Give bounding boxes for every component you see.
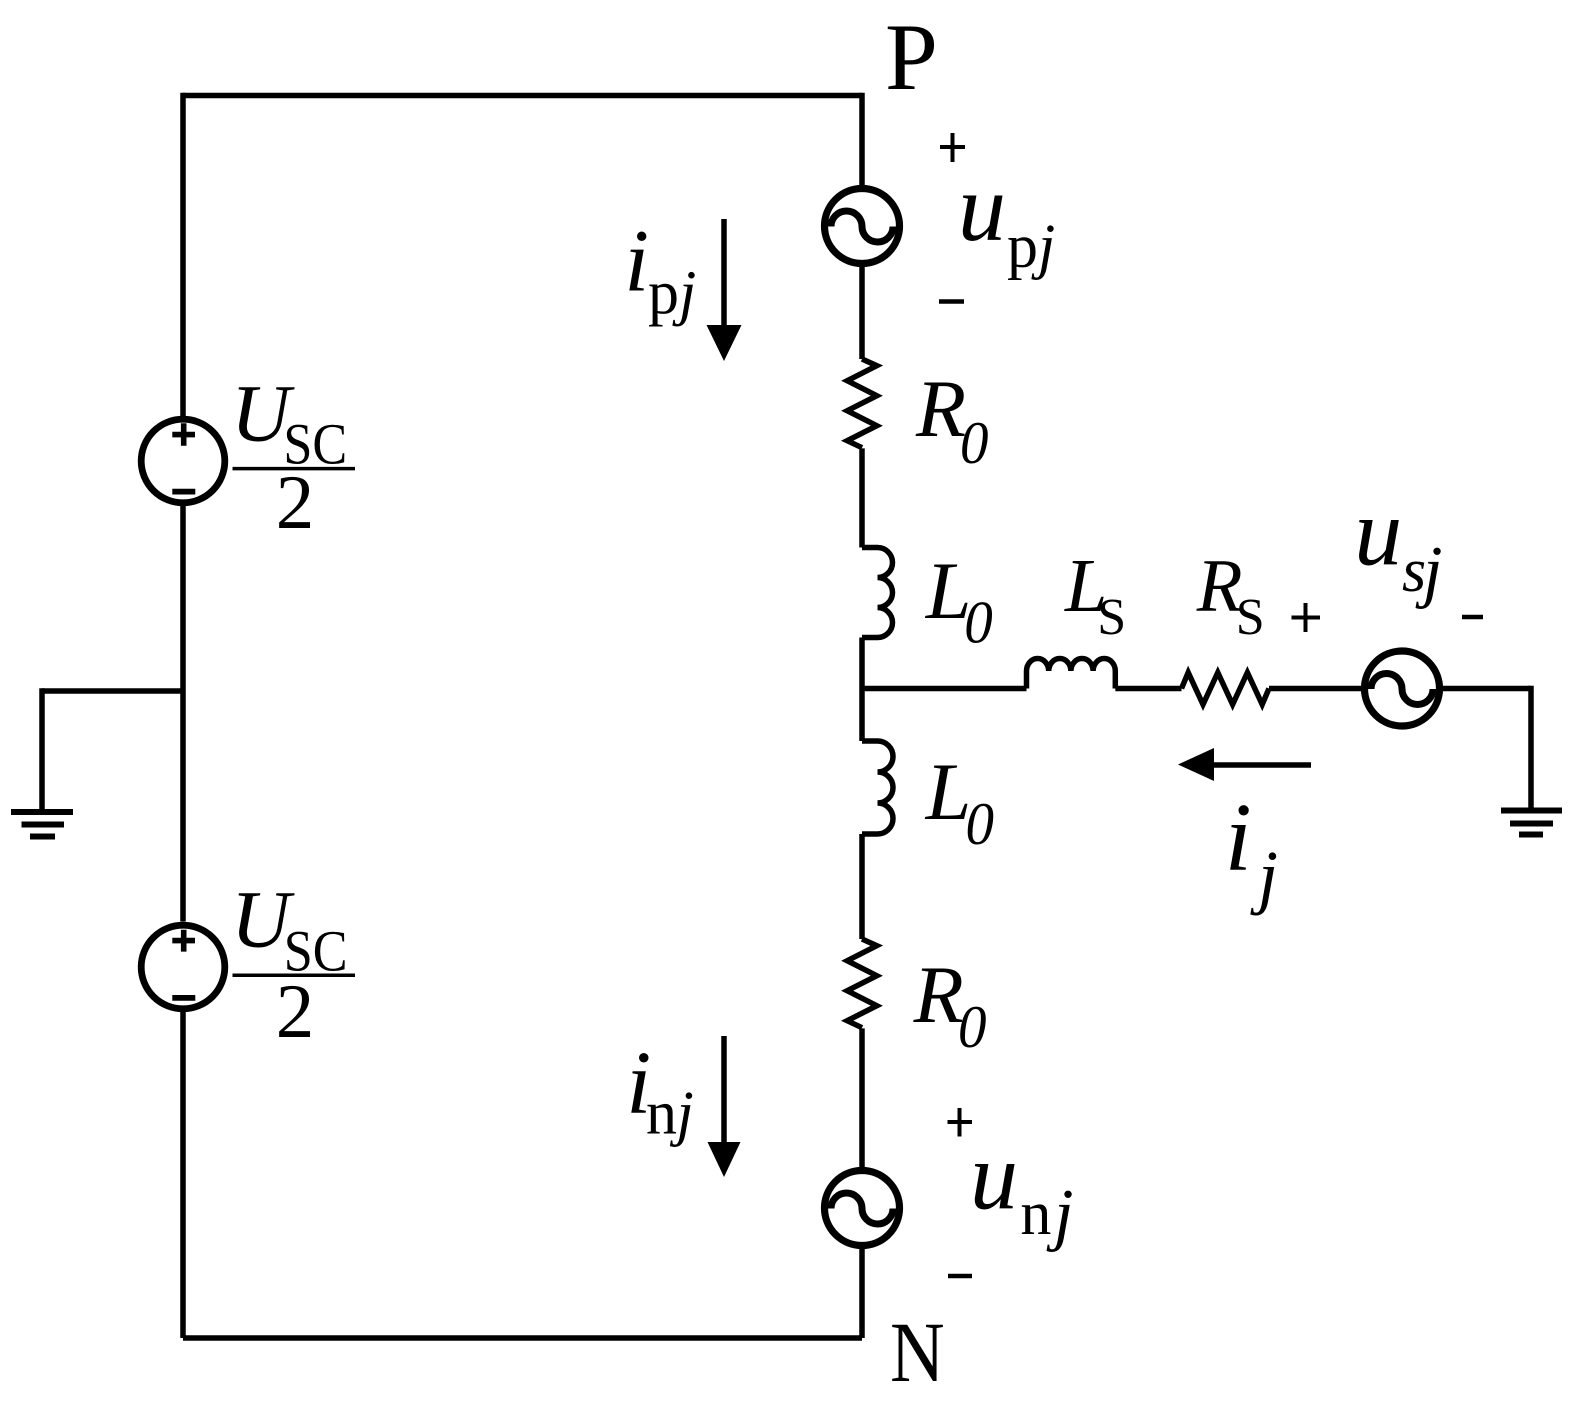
svg-text:j: j xyxy=(1250,836,1278,916)
DC source V1 circle xyxy=(141,419,225,503)
wire RS to source xyxy=(1269,686,1362,692)
svg-text:0: 0 xyxy=(960,410,988,477)
arrow i_nj head xyxy=(708,1142,741,1177)
wire top horizontal xyxy=(183,93,862,99)
DC source V2 minus xyxy=(172,995,195,1001)
plus sign u_nj xyxy=(948,1108,973,1137)
AC source u_pj circle xyxy=(825,189,900,264)
svg-text:S: S xyxy=(1236,589,1265,646)
wire left rail lower xyxy=(180,1012,186,1339)
svg-text:L: L xyxy=(925,746,972,837)
wire xyxy=(859,1247,865,1338)
wire right column from P to source xyxy=(859,93,865,186)
AC source u_sj circle xyxy=(1365,651,1440,726)
svg-text:u: u xyxy=(970,1122,1018,1229)
resistor RS zigzag xyxy=(1182,673,1270,705)
ground right xyxy=(1501,811,1562,835)
fraction bar lower xyxy=(233,974,356,978)
svg-text:0: 0 xyxy=(958,994,986,1061)
AC source u_pj sine xyxy=(831,211,893,242)
wire ground stub left xyxy=(42,688,183,694)
wire source to right corner xyxy=(1441,686,1531,692)
minus sign u_nj xyxy=(948,1274,972,1279)
wire bottom horizontal xyxy=(183,1335,862,1341)
arrow i_pj head xyxy=(707,325,742,361)
svg-text:u: u xyxy=(958,154,1006,261)
svg-text:pj: pj xyxy=(648,259,696,327)
svg-text:u: u xyxy=(1354,479,1402,586)
svg-text:S: S xyxy=(1097,589,1126,646)
wire left rail upper xyxy=(180,93,186,417)
svg-text:R: R xyxy=(913,949,964,1040)
wire LS to RS xyxy=(1115,686,1181,692)
minus sign u_sj xyxy=(1462,615,1483,620)
wire ground drop right xyxy=(1528,686,1534,811)
inductor LS xyxy=(1027,659,1116,689)
svg-text:pj: pj xyxy=(1007,213,1055,281)
svg-text:2: 2 xyxy=(276,968,315,1054)
resistor R0 lower zigzag xyxy=(847,939,877,1028)
inductor L0 lower xyxy=(862,741,893,834)
svg-text:R: R xyxy=(915,363,966,454)
DC source V2 plus xyxy=(172,930,195,952)
DC source V1 plus xyxy=(172,423,195,446)
plus sign u_sj xyxy=(1292,603,1321,632)
svg-text:0: 0 xyxy=(966,791,994,858)
DC source V1 minus xyxy=(172,489,195,495)
AC source u_nj circle xyxy=(825,1171,900,1246)
AC source u_nj sine xyxy=(831,1193,893,1224)
svg-text:0: 0 xyxy=(964,589,992,656)
wire through node xyxy=(859,638,865,742)
inductor L0 upper xyxy=(862,548,893,638)
wire ground drop left xyxy=(39,688,45,812)
arrow i_nj line xyxy=(721,1036,727,1144)
ground left xyxy=(11,812,73,837)
resistor R0 upper zigzag xyxy=(847,359,877,448)
plus sign u_pj xyxy=(940,133,965,162)
svg-text:n: n xyxy=(1020,1180,1051,1248)
AC source u_sj sine xyxy=(1371,673,1433,704)
wire xyxy=(859,1028,865,1168)
DC source V2 circle xyxy=(141,925,225,1009)
wire xyxy=(859,265,865,359)
wire xyxy=(859,834,865,939)
arrow i_j line xyxy=(1210,762,1311,768)
svg-text:nj: nj xyxy=(646,1080,694,1148)
svg-text:i: i xyxy=(1225,784,1252,891)
wire xyxy=(859,448,865,547)
svg-text:i: i xyxy=(624,213,649,311)
fraction bar upper xyxy=(233,467,356,471)
arrow i_j head xyxy=(1178,748,1214,781)
arrow i_pj line xyxy=(721,219,727,327)
svg-text:P: P xyxy=(885,4,938,110)
svg-text:N: N xyxy=(890,1305,945,1401)
minus sign u_pj xyxy=(939,299,964,304)
wire node to LS xyxy=(862,686,1027,692)
svg-text:2: 2 xyxy=(276,459,315,545)
wire left rail middle xyxy=(180,506,186,922)
